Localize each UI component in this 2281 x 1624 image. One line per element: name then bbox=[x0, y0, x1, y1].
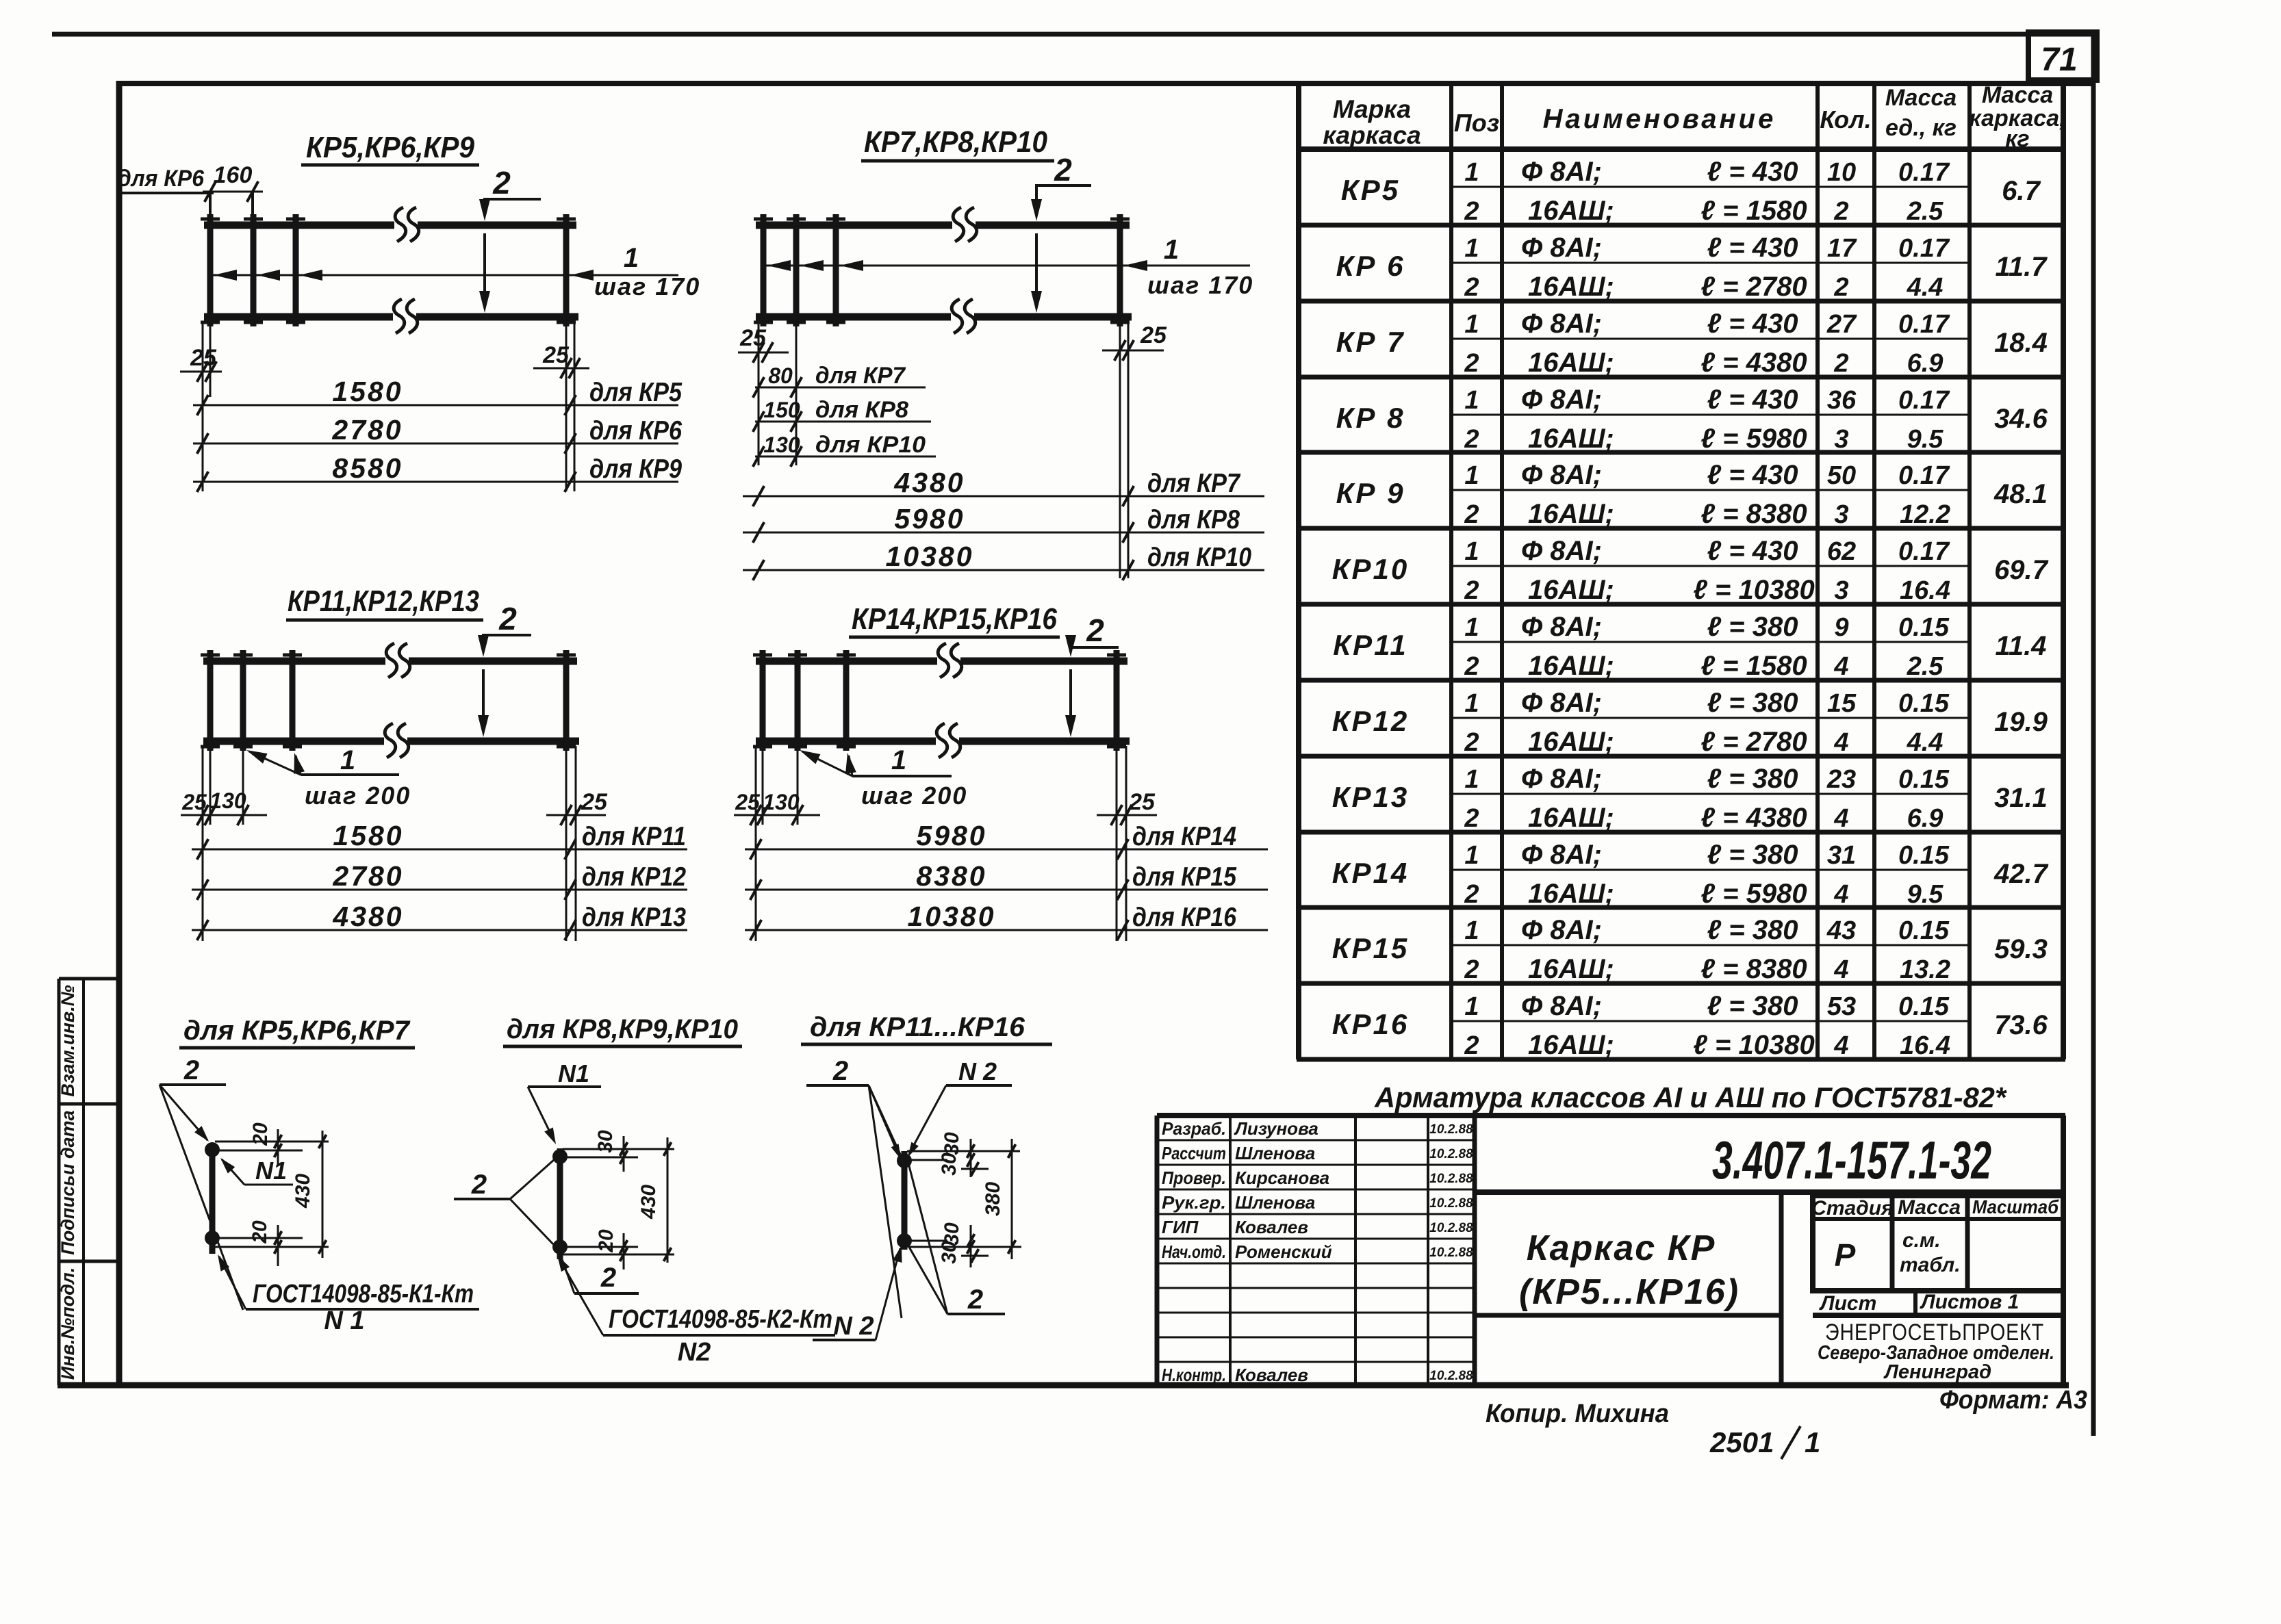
drawing KR11-12-13 stirrups (pos 1) bbox=[201, 650, 576, 751]
drawing KR11-12-13 dim 4380 для КР13 bbox=[192, 901, 687, 940]
svg-text:30: 30 bbox=[938, 1241, 960, 1264]
svg-text:1: 1 bbox=[1464, 765, 1479, 794]
drawing KR14-15-16 dim 5980 для КР14 bbox=[745, 820, 1268, 860]
svg-text:130: 130 bbox=[209, 788, 246, 813]
svg-text:16АШ;: 16АШ; bbox=[1528, 575, 1614, 605]
svg-text:23: 23 bbox=[1826, 765, 1856, 794]
svg-text:Ковалев: Ковалев bbox=[1235, 1217, 1308, 1237]
svg-text:62: 62 bbox=[1827, 537, 1856, 566]
svg-text:1: 1 bbox=[1464, 916, 1479, 945]
svg-text:160: 160 bbox=[214, 162, 253, 188]
svg-text:4: 4 bbox=[1833, 652, 1848, 681]
drawing KR14-15-16 dim 10380 для КР16 bbox=[745, 901, 1268, 940]
svg-text:16АШ;: 16АШ; bbox=[1528, 499, 1614, 529]
svg-text:ℓ = 380: ℓ = 380 bbox=[1707, 764, 1798, 794]
svg-text:1: 1 bbox=[1464, 386, 1479, 415]
svg-text:80: 80 bbox=[768, 363, 793, 388]
svg-text:0.15: 0.15 bbox=[1898, 765, 1950, 794]
svg-text:КР11,КР12,КР13: КР11,КР12,КР13 bbox=[288, 584, 479, 618]
svg-text:4: 4 bbox=[1833, 728, 1848, 757]
svg-text:15: 15 bbox=[1827, 689, 1857, 718]
svg-text:2: 2 bbox=[1464, 576, 1479, 605]
svg-text:2: 2 bbox=[1464, 728, 1479, 757]
svg-text:для КР10: для КР10 bbox=[1147, 543, 1251, 572]
svg-text:4.4: 4.4 bbox=[1907, 273, 1944, 302]
drawing KR7-8-10 stirrups (pos 1) bbox=[754, 214, 1130, 326]
drawing KR7-8-10 break symbols bbox=[952, 207, 977, 333]
drawing KR5-6-9 stirrup step dim line bbox=[209, 243, 700, 300]
svg-text:1: 1 bbox=[1805, 1426, 1820, 1458]
svg-text:4: 4 bbox=[1833, 880, 1848, 909]
svg-text:ℓ = 430: ℓ = 430 bbox=[1707, 157, 1798, 187]
svg-text:Разраб.: Разраб. bbox=[1162, 1118, 1226, 1139]
svg-text:10.2.88: 10.2.88 bbox=[1429, 1122, 1473, 1137]
svg-text:430: 430 bbox=[292, 1174, 314, 1209]
svg-text:КР11: КР11 bbox=[1333, 629, 1407, 661]
svg-text:Кол.: Кол. bbox=[1820, 105, 1871, 133]
svg-text:для КР5,КР6,КР7: для КР5,КР6,КР7 bbox=[183, 1016, 411, 1046]
svg-text:Рук.гр.: Рук.гр. bbox=[1162, 1192, 1226, 1213]
table row КР7 bbox=[1336, 309, 2048, 378]
svg-text:(КР5...КР16): (КР5...КР16) bbox=[1519, 1272, 1740, 1312]
drawing KR5-6-9 stirrups (pos 1) bbox=[201, 214, 576, 326]
svg-text:50: 50 bbox=[1827, 461, 1856, 490]
svg-text:Ф 8АI;: Ф 8АI; bbox=[1521, 915, 1602, 945]
svg-text:12.2: 12.2 bbox=[1900, 500, 1950, 529]
svg-text:1: 1 bbox=[1464, 992, 1479, 1021]
svg-text:Н.контр.: Н.контр. bbox=[1162, 1365, 1226, 1385]
svg-text:10380: 10380 bbox=[907, 901, 995, 932]
detail K3 leader pos 2 bottom bbox=[907, 1163, 1005, 1315]
svg-text:31: 31 bbox=[1827, 841, 1856, 870]
detail K3 dim 30 top bbox=[907, 1132, 1020, 1177]
document title bbox=[1519, 1228, 1740, 1312]
table row КР13 bbox=[1332, 764, 2048, 833]
drawing KR11-12-13 dim 2780 для КР12 bbox=[192, 860, 687, 900]
svg-text:2: 2 bbox=[471, 1170, 487, 1200]
drawing KR5-6-9 dim 25 right bbox=[533, 322, 589, 491]
detail K2 leader pos 2 bottom bbox=[560, 1254, 639, 1293]
svg-text:КР10: КР10 bbox=[1332, 553, 1410, 585]
drawing KR11-12-13 dim 25 right bbox=[546, 746, 608, 941]
svg-text:КР 6: КР 6 bbox=[1336, 250, 1405, 282]
svg-text:Ф 8АI;: Ф 8АI; bbox=[1521, 764, 1602, 794]
svg-text:Листов 1: Листов 1 bbox=[1920, 1291, 2019, 1313]
svg-text:20: 20 bbox=[249, 1220, 271, 1244]
svg-text:Каркас КР: Каркас КР bbox=[1527, 1228, 1716, 1268]
svg-text:КР16: КР16 bbox=[1332, 1008, 1410, 1040]
svg-text:для КР11: для КР11 bbox=[582, 822, 686, 851]
svg-text:42.7: 42.7 bbox=[1993, 859, 2049, 889]
svg-text:10.2.88: 10.2.88 bbox=[1429, 1172, 1473, 1186]
table row КР5 bbox=[1341, 157, 2041, 226]
drawing KR7-8-10 sub-dim 150 dlya KR8 bbox=[753, 397, 931, 432]
drawing KR5-6-9 dim 2780 для КР6 bbox=[193, 414, 682, 454]
svg-text:10380: 10380 bbox=[885, 541, 973, 572]
svg-text:4: 4 bbox=[1833, 804, 1848, 833]
svg-text:30: 30 bbox=[594, 1130, 617, 1153]
svg-text:для КР15: для КР15 bbox=[1132, 862, 1237, 892]
drawing KR14-15-16 dims 25 130 left bbox=[734, 746, 820, 941]
svg-text:2: 2 bbox=[1464, 273, 1479, 302]
svg-text:1: 1 bbox=[340, 745, 355, 775]
detail K3 title bbox=[801, 1012, 1052, 1044]
svg-text:16АШ;: 16АШ; bbox=[1528, 424, 1614, 454]
detail K1 dim 20 bottom bbox=[215, 1220, 329, 1266]
svg-text:2: 2 bbox=[832, 1056, 848, 1086]
svg-text:20: 20 bbox=[595, 1229, 617, 1253]
drawing KR11-12-13 leader pos 2 bbox=[478, 601, 531, 737]
svg-text:2501: 2501 bbox=[1709, 1426, 1774, 1458]
drawing KR14-15-16 longitudinal bars (pos 2) bbox=[756, 661, 1130, 741]
svg-text:4: 4 bbox=[1833, 1031, 1848, 1060]
svg-text:ℓ = 5980: ℓ = 5980 bbox=[1700, 424, 1807, 454]
drawing KR5-6-9 extension lines bbox=[0, 0, 1, 1]
svg-text:Взам.инв.№: Взам.инв.№ bbox=[58, 985, 78, 1096]
svg-text:ℓ = 430: ℓ = 430 bbox=[1707, 385, 1798, 415]
drawing KR11-12-13 longitudinal bars (pos 2) bbox=[203, 661, 579, 741]
svg-text:ℓ = 4380: ℓ = 4380 bbox=[1700, 348, 1807, 378]
svg-text:1: 1 bbox=[1464, 613, 1479, 642]
svg-text:2: 2 bbox=[1833, 349, 1848, 378]
svg-text:1580: 1580 bbox=[332, 376, 403, 407]
svg-text:Формат: А3: Формат: А3 bbox=[1939, 1386, 2087, 1415]
svg-text:Роменский: Роменский bbox=[1235, 1241, 1332, 1262]
svg-text:N1: N1 bbox=[558, 1059, 589, 1087]
svg-text:1: 1 bbox=[1464, 841, 1479, 870]
svg-text:Шленова: Шленова bbox=[1235, 1143, 1315, 1163]
detail K2 dim 20 bottom bbox=[563, 1229, 674, 1269]
svg-text:4380: 4380 bbox=[893, 467, 965, 498]
signature stamp grid bbox=[1157, 1116, 1475, 1385]
svg-text:25: 25 bbox=[190, 345, 217, 371]
svg-text:с.м.: с.м. bbox=[1902, 1229, 1941, 1252]
svg-text:ℓ = 430: ℓ = 430 bbox=[1707, 309, 1798, 339]
svg-text:Ковалев: Ковалев bbox=[1235, 1365, 1308, 1385]
svg-text:16АШ;: 16АШ; bbox=[1528, 196, 1614, 226]
svg-text:31.1: 31.1 bbox=[1994, 783, 2048, 813]
drawing KR7-8-10 leader pos 2 bbox=[1031, 152, 1091, 313]
svg-text:Провер.: Провер. bbox=[1162, 1168, 1226, 1188]
detail K1 leader pos 2 bbox=[160, 1055, 243, 1310]
svg-text:ℓ = 8380: ℓ = 8380 bbox=[1700, 954, 1807, 984]
drawing KR7-8-10 stirrup step dim line bbox=[766, 235, 1253, 299]
drawing KR5-6-9 leader pos 2 bbox=[479, 165, 541, 313]
svg-text:2: 2 bbox=[1054, 152, 1072, 188]
title block stage-mass-scale grid bbox=[1813, 1196, 2063, 1315]
svg-text:шаг 200: шаг 200 bbox=[305, 782, 411, 810]
svg-text:ℓ = 380: ℓ = 380 bbox=[1707, 991, 1798, 1021]
svg-text:25: 25 bbox=[181, 790, 207, 814]
svg-text:1: 1 bbox=[624, 243, 639, 273]
svg-text:N 2: N 2 bbox=[958, 1057, 997, 1085]
svg-text:25: 25 bbox=[1140, 322, 1167, 348]
svg-text:18.4: 18.4 bbox=[1994, 328, 2048, 358]
svg-text:Масса: Масса bbox=[1982, 82, 2053, 108]
detail K2 dim 430 bbox=[637, 1137, 672, 1263]
drawing KR14-15-16 stirrups (pos 1) bbox=[753, 650, 1126, 751]
svg-text:11.4: 11.4 bbox=[1996, 631, 2047, 661]
drawing KR7-8-10 extension lines bbox=[0, 0, 1, 1]
svg-text:N 1: N 1 bbox=[324, 1306, 364, 1335]
drawing KR7-8-10 sub-dim 80 dlya KR7 bbox=[753, 363, 926, 398]
detail K2 GOST label bbox=[557, 1255, 835, 1367]
svg-text:2: 2 bbox=[1464, 500, 1479, 529]
svg-text:2: 2 bbox=[1464, 349, 1479, 378]
order number bbox=[1709, 1426, 1820, 1459]
svg-text:16.4: 16.4 bbox=[1900, 1031, 1950, 1060]
drawing KR5-6-9 break symbols bbox=[394, 207, 419, 333]
svg-text:380: 380 bbox=[982, 1182, 1004, 1216]
detail K3 dim 380 bbox=[910, 1139, 1021, 1259]
svg-text:КР12: КР12 bbox=[1332, 705, 1410, 737]
svg-text:Лист: Лист bbox=[1819, 1292, 1876, 1315]
drawing KR11-12-13 break symbols bbox=[385, 643, 410, 758]
table row КР12 bbox=[1332, 688, 2048, 757]
stage-mass-scale texts bbox=[1811, 1196, 2059, 1315]
svg-text:0.17: 0.17 bbox=[1898, 537, 1950, 566]
svg-text:1: 1 bbox=[1464, 158, 1479, 187]
drawing KR5-6-9 dim 25 left bbox=[180, 322, 222, 491]
svg-text:3.407.1-157.1-32: 3.407.1-157.1-32 bbox=[1712, 1130, 1991, 1190]
svg-text:17: 17 bbox=[1827, 234, 1857, 263]
svg-text:2: 2 bbox=[183, 1055, 199, 1085]
svg-text:0.15: 0.15 bbox=[1898, 841, 1950, 870]
svg-text:Нач.отд.: Нач.отд. bbox=[1162, 1241, 1226, 1262]
svg-text:Стадия: Стадия bbox=[1811, 1197, 1894, 1220]
detail K2 title bbox=[503, 1014, 742, 1046]
svg-text:0.17: 0.17 bbox=[1898, 234, 1950, 263]
svg-text:для КР14: для КР14 bbox=[1132, 822, 1236, 851]
table row КР14 bbox=[1332, 840, 2049, 909]
svg-text:5980: 5980 bbox=[894, 503, 965, 534]
svg-text:8580: 8580 bbox=[332, 452, 403, 484]
svg-text:Масштаб: Масштаб bbox=[1972, 1196, 2059, 1217]
svg-text:ГОСТ14098-85-К2-Кт: ГОСТ14098-85-К2-Кт bbox=[609, 1305, 832, 1334]
svg-text:для КР8,КР9,КР10: для КР8,КР9,КР10 bbox=[507, 1014, 738, 1044]
svg-text:Ф 8АI;: Ф 8АI; bbox=[1521, 233, 1602, 263]
svg-text:2: 2 bbox=[492, 165, 511, 201]
svg-text:11.7: 11.7 bbox=[1996, 252, 2048, 282]
svg-text:Ленинград: Ленинград bbox=[1883, 1361, 1991, 1383]
svg-text:КР14,КР15,КР16: КР14,КР15,КР16 bbox=[852, 602, 1057, 636]
svg-text:0.15: 0.15 bbox=[1898, 613, 1950, 642]
svg-text:2: 2 bbox=[1464, 652, 1479, 681]
svg-text:1: 1 bbox=[1464, 689, 1479, 718]
svg-text:КР 9: КР 9 bbox=[1336, 477, 1405, 509]
svg-text:Ф 8АI;: Ф 8АI; bbox=[1521, 385, 1602, 415]
drawing KR7-8-10 title bbox=[861, 125, 1054, 161]
svg-text:КР15: КР15 bbox=[1332, 932, 1410, 964]
svg-text:2: 2 bbox=[1464, 955, 1479, 984]
table header texts bbox=[1323, 82, 2065, 152]
svg-text:25: 25 bbox=[542, 342, 570, 368]
detail K2 dim 30 top bbox=[563, 1130, 674, 1172]
svg-text:для КР12: для КР12 bbox=[582, 862, 686, 892]
svg-text:N 2: N 2 bbox=[833, 1312, 874, 1341]
svg-text:N2: N2 bbox=[678, 1338, 711, 1367]
svg-text:Ф 8АI;: Ф 8АI; bbox=[1521, 536, 1602, 566]
svg-text:КР 7: КР 7 bbox=[1336, 326, 1405, 358]
svg-text:КР 8: КР 8 bbox=[1336, 402, 1405, 434]
svg-text:10.2.88: 10.2.88 bbox=[1429, 1221, 1473, 1235]
svg-text:10: 10 bbox=[1827, 158, 1856, 187]
svg-text:4: 4 bbox=[1833, 955, 1848, 984]
svg-text:2: 2 bbox=[600, 1263, 616, 1293]
drawing KR5-6-9 title bbox=[301, 131, 479, 165]
svg-text:табл.: табл. bbox=[1900, 1254, 1961, 1276]
svg-text:Ф 8АI;: Ф 8АI; bbox=[1521, 688, 1602, 718]
drawing KR7-8-10 longitudinal bars (pos 2) bbox=[756, 225, 1132, 317]
left margin stamp boxes bbox=[59, 979, 119, 1385]
svg-text:ℓ = 380: ℓ = 380 bbox=[1707, 840, 1798, 870]
svg-text:48.1: 48.1 bbox=[1993, 479, 2048, 509]
drawing KR11-12-13 title bbox=[286, 584, 483, 620]
svg-text:10.2.88: 10.2.88 bbox=[1429, 1246, 1473, 1260]
detail K3 dim 30 bottom bbox=[907, 1222, 989, 1267]
svg-text:2: 2 bbox=[1464, 197, 1479, 226]
svg-text:2: 2 bbox=[1464, 804, 1479, 833]
svg-text:КР13: КР13 bbox=[1332, 781, 1410, 813]
svg-text:6.9: 6.9 bbox=[1907, 804, 1944, 833]
svg-text:КР5,КР6,КР9: КР5,КР6,КР9 bbox=[306, 131, 474, 164]
svg-text:16АШ;: 16АШ; bbox=[1528, 348, 1614, 378]
svg-text:9: 9 bbox=[1834, 613, 1848, 642]
drawing KR14-15-16 break symbols bbox=[936, 643, 962, 758]
drawing KR5-6-9 dim 1580 для КР5 bbox=[193, 376, 683, 415]
svg-text:Ф 8АI;: Ф 8АI; bbox=[1521, 612, 1602, 642]
svg-text:для КР6: для КР6 bbox=[589, 416, 682, 446]
svg-text:13.2: 13.2 bbox=[1900, 955, 1950, 984]
svg-text:КР5: КР5 bbox=[1341, 174, 1400, 206]
svg-text:1: 1 bbox=[1464, 461, 1479, 490]
svg-text:2: 2 bbox=[1464, 880, 1479, 909]
drawing KR7-8-10 dim 25 left bbox=[738, 322, 796, 465]
svg-text:10.2.88: 10.2.88 bbox=[1429, 1196, 1473, 1211]
svg-text:ℓ = 430: ℓ = 430 bbox=[1707, 233, 1798, 263]
drawing KR5-6-9 longitudinal bars (pos 2) bbox=[204, 225, 578, 317]
svg-text:Наименование: Наименование bbox=[1543, 104, 1776, 134]
svg-text:шаг 170: шаг 170 bbox=[594, 272, 700, 300]
svg-text:для КР11...КР16: для КР11...КР16 bbox=[810, 1012, 1025, 1042]
svg-text:Шленова: Шленова bbox=[1235, 1192, 1315, 1213]
svg-text:1: 1 bbox=[1464, 310, 1479, 339]
svg-text:1: 1 bbox=[1164, 235, 1179, 265]
svg-text:6.9: 6.9 bbox=[1907, 349, 1944, 378]
svg-text:для КР7: для КР7 bbox=[1147, 469, 1241, 498]
detail K1 GOST label bbox=[218, 1254, 479, 1335]
detail K3 leader pos 2 top bbox=[806, 1056, 906, 1318]
parts table grid bbox=[1297, 83, 2065, 1059]
svg-text:для КР5: для КР5 bbox=[589, 378, 683, 407]
svg-text:Ф 8АI;: Ф 8АI; bbox=[1521, 991, 1602, 1021]
svg-text:ℓ = 4380: ℓ = 4380 bbox=[1700, 803, 1807, 833]
svg-text:для КР16: для КР16 bbox=[1132, 903, 1236, 932]
drawing KR11-12-13 extension lines bbox=[0, 0, 1, 1]
detail K1 title bbox=[179, 1016, 415, 1048]
svg-text:59.3: 59.3 bbox=[1994, 934, 2048, 964]
drawing KR7-8-10 dim 4380 для КР7 bbox=[743, 467, 1264, 506]
drawing KR7-8-10 dim 5980 для КР8 bbox=[743, 503, 1264, 543]
svg-text:53: 53 bbox=[1827, 992, 1856, 1021]
svg-text:1: 1 bbox=[1464, 537, 1479, 566]
svg-text:43: 43 bbox=[1826, 916, 1856, 945]
svg-text:16АШ;: 16АШ; bbox=[1528, 727, 1614, 757]
svg-text:25: 25 bbox=[1128, 789, 1156, 815]
svg-text:0.15: 0.15 bbox=[1898, 916, 1950, 945]
svg-text:4380: 4380 bbox=[332, 901, 403, 932]
detail K3 label N2 top bbox=[908, 1057, 1012, 1157]
svg-text:ℓ = 10380: ℓ = 10380 bbox=[1693, 575, 1814, 605]
table row КР8 bbox=[1336, 385, 2048, 454]
svg-text:2: 2 bbox=[498, 601, 517, 636]
svg-text:2.5: 2.5 bbox=[1907, 197, 1944, 226]
svg-text:Масса: Масса bbox=[1898, 1196, 1961, 1219]
svg-text:ℓ = 10380: ℓ = 10380 bbox=[1693, 1030, 1814, 1060]
svg-text:0.15: 0.15 bbox=[1898, 689, 1950, 718]
svg-text:30: 30 bbox=[941, 1132, 963, 1155]
svg-text:ℓ = 430: ℓ = 430 bbox=[1707, 536, 1798, 566]
svg-text:3: 3 bbox=[1834, 425, 1848, 454]
svg-text:430: 430 bbox=[637, 1185, 660, 1220]
svg-text:5980: 5980 bbox=[916, 820, 986, 851]
drawing KR14-15-16 extension lines bbox=[0, 0, 1, 1]
stamp signature texts bbox=[1162, 1118, 1473, 1385]
svg-text:2: 2 bbox=[1833, 273, 1848, 302]
svg-text:0.15: 0.15 bbox=[1898, 992, 1950, 1021]
svg-text:Арматура классов АI и АШ по ГО: Арматура классов АI и АШ по ГОСТ5781-82* bbox=[1374, 1081, 2007, 1113]
svg-text:34.6: 34.6 bbox=[1994, 404, 2048, 434]
svg-text:для КР13: для КР13 bbox=[582, 903, 686, 932]
svg-text:9.5: 9.5 bbox=[1907, 880, 1944, 909]
page number box bbox=[2028, 32, 2097, 80]
svg-text:16АШ;: 16АШ; bbox=[1528, 879, 1614, 909]
svg-text:Подписьи дата: Подписьи дата bbox=[58, 1110, 78, 1254]
svg-text:16АШ;: 16АШ; bbox=[1528, 1030, 1614, 1060]
svg-text:Инв.№подл.: Инв.№подл. bbox=[58, 1267, 78, 1380]
svg-text:2: 2 bbox=[967, 1285, 983, 1315]
drawing KR14-15-16 dim 25 right bbox=[1097, 746, 1157, 941]
svg-text:для КР9: для КР9 bbox=[589, 454, 682, 484]
svg-text:0.17: 0.17 bbox=[1898, 386, 1950, 415]
svg-text:4.4: 4.4 bbox=[1907, 728, 1944, 757]
svg-text:для КР7: для КР7 bbox=[815, 363, 906, 389]
svg-text:73.6: 73.6 bbox=[1994, 1010, 2048, 1040]
organization name bbox=[1818, 1319, 2054, 1383]
table row КР10 bbox=[1332, 536, 2049, 605]
svg-text:25: 25 bbox=[581, 789, 608, 815]
svg-text:6.7: 6.7 bbox=[2002, 176, 2041, 206]
svg-text:0.17: 0.17 bbox=[1898, 158, 1950, 187]
svg-text:Лизунова: Лизунова bbox=[1234, 1118, 1318, 1139]
svg-text:ГИП: ГИП bbox=[1162, 1217, 1199, 1237]
svg-text:Масса: Масса bbox=[1885, 85, 1957, 111]
svg-text:Поз: Поз bbox=[1454, 109, 1499, 137]
svg-text:25: 25 bbox=[739, 325, 767, 351]
svg-text:шаг 170: шаг 170 bbox=[1147, 271, 1253, 299]
drawing KR5-6-9 dim dlya KR6 160 bbox=[116, 162, 263, 214]
drawing KR11-12-13 dim 1580 для КР11 bbox=[192, 820, 687, 860]
drawing KR14-15-16 title bbox=[849, 602, 1060, 637]
svg-text:для КР8: для КР8 bbox=[1147, 505, 1240, 534]
svg-text:27: 27 bbox=[1826, 310, 1857, 339]
svg-text:ℓ = 430: ℓ = 430 bbox=[1707, 460, 1798, 490]
svg-text:шаг 200: шаг 200 bbox=[861, 782, 967, 810]
svg-text:ℓ = 1580: ℓ = 1580 bbox=[1700, 651, 1807, 681]
svg-text:8380: 8380 bbox=[916, 860, 986, 892]
svg-text:для КР8: для КР8 bbox=[815, 397, 908, 423]
svg-text:1: 1 bbox=[891, 745, 906, 775]
